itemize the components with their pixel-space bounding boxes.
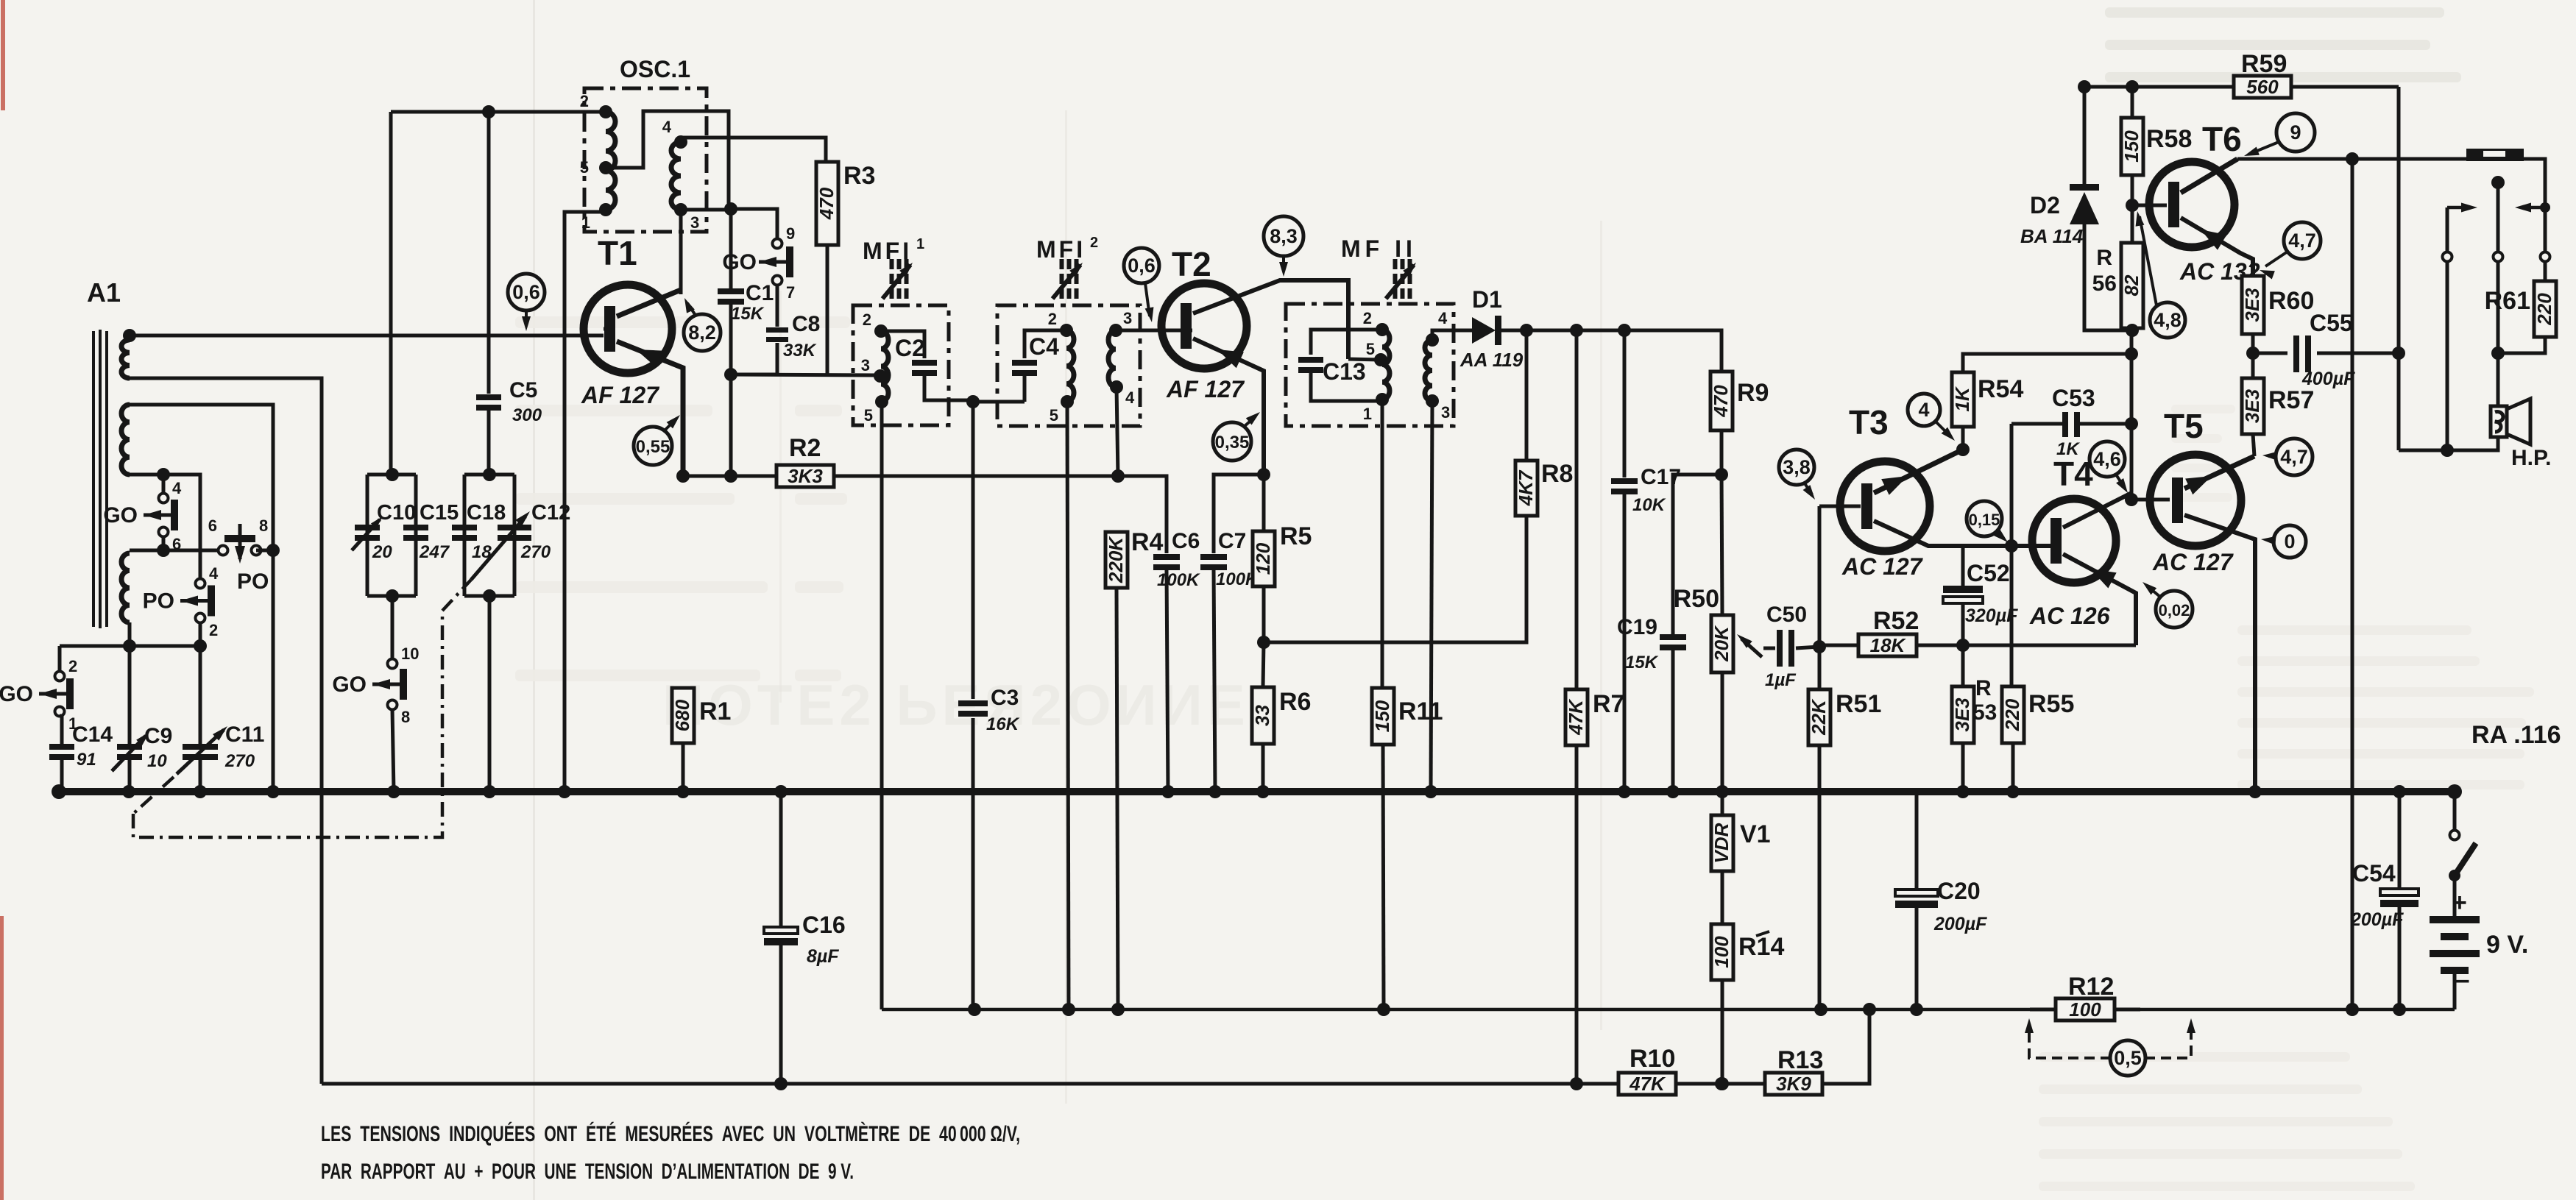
svg-text:R50: R50: [1674, 585, 1719, 613]
svg-text:3: 3: [1123, 309, 1132, 327]
measure circle 9: [2244, 113, 2315, 156]
capacitor C14: [49, 723, 113, 770]
svg-text:H.P.: H.P.: [2511, 446, 2551, 470]
svg-text:56: 56: [2092, 271, 2117, 296]
node R7 AGC: [1570, 1077, 1583, 1090]
svg-text:5: 5: [1366, 340, 1375, 358]
resistor R56: [2092, 243, 2143, 328]
node pin2 line C5: [482, 105, 495, 118]
svg-text:C6: C6: [1172, 529, 1200, 553]
switch PO1: [208, 516, 269, 594]
wire line748: [130, 549, 223, 553]
MFII pin 4: [1426, 309, 1448, 347]
node R61 bottom: [2491, 347, 2505, 360]
T2 type label: [1166, 376, 1245, 402]
svg-text:AA 119: AA 119: [1459, 349, 1524, 371]
wire C7 riser: [1214, 475, 1264, 553]
bus junction dots: [122, 785, 2406, 798]
svg-text:3E3: 3E3: [1951, 697, 1973, 732]
svg-text:VDR: VDR: [1710, 823, 1733, 863]
svg-text:9 V.: 9 V.: [2486, 931, 2528, 959]
svg-text:4: 4: [1438, 309, 1448, 327]
rail junction dots: [1863, 1003, 2406, 1016]
svg-text:10: 10: [401, 645, 419, 663]
wire R6 leads: [1263, 642, 1264, 792]
wire R5 leads: [1262, 475, 1266, 642]
wire MFI1 pin2 to C2: [881, 331, 924, 358]
wire R55 to bus: [2011, 743, 2015, 792]
node R14 AGC: [1716, 1077, 1729, 1090]
measure circle 3,8: [1779, 450, 1815, 500]
svg-text:270: 270: [520, 542, 551, 562]
svg-text:3E3: 3E3: [2241, 288, 2263, 322]
svg-text:3: 3: [1441, 403, 1450, 422]
resistor R61: [2485, 281, 2556, 337]
node R11 rail: [1377, 1003, 1390, 1016]
node R54 T5base: [2125, 347, 2138, 361]
T2 emitter: [1193, 338, 1264, 475]
wire R11 to rail: [1383, 745, 1384, 1009]
transformer MFII label: [1341, 235, 1417, 262]
measure circle 0,6 T1: [508, 274, 545, 331]
wire R3 to line509: [826, 245, 829, 375]
svg-text:53: 53: [1972, 700, 1997, 725]
resistor R6: [1251, 687, 1312, 744]
wire C9 stub: [128, 646, 132, 792]
wire C53 left: [2011, 422, 2065, 426]
wire R53 leads: [1961, 645, 1965, 792]
svg-text:ИOTE2 ЬEЯ2OИИE: ИOTE2 ЬEЯ2OИИE: [662, 672, 1250, 737]
svg-text:C19: C19: [1617, 615, 1657, 639]
wire GO4 to C14: [60, 716, 62, 745]
svg-text:150: 150: [1371, 700, 1393, 732]
svg-text:R51: R51: [1836, 690, 1881, 718]
svg-text:8: 8: [259, 516, 268, 535]
wire MFII pin2 to C13: [1311, 330, 1382, 355]
MFI2 pin 5: [1050, 395, 1074, 425]
trimmer bank box C18 C12: [464, 475, 514, 596]
MFII pin 1: [1363, 393, 1389, 423]
wire R14 bottom: [1721, 980, 1724, 1084]
capacitor C7: [1200, 529, 1259, 589]
svg-text:C20: C20: [1937, 878, 1981, 904]
svg-text:15K: 15K: [731, 304, 765, 324]
svg-text:C9: C9: [144, 724, 172, 748]
schematic ref RA.116: [2471, 721, 2561, 749]
resistor R60: [2241, 276, 2315, 334]
diode D2: [2020, 87, 2132, 330]
jack contact mid: [2494, 252, 2503, 262]
svg-text:9: 9: [2290, 121, 2301, 143]
svg-text:C1: C1: [746, 281, 774, 305]
T6 label: [2202, 120, 2242, 158]
svg-text:100K: 100K: [1157, 570, 1200, 590]
T1 base wire: [604, 327, 615, 331]
wire mid contact down: [2497, 262, 2500, 353]
node coil L1 top: [123, 329, 136, 342]
svg-text:10K: 10K: [1632, 495, 1666, 515]
wire C19 to bus: [1671, 650, 1675, 792]
svg-text:C10: C10: [377, 501, 416, 525]
wire C50 right: [1796, 647, 1819, 648]
svg-text:T4: T4: [2053, 455, 2093, 493]
svg-text:3K3: 3K3: [788, 465, 823, 487]
node C3 rail: [968, 1003, 981, 1016]
svg-text:RA .116: RA .116: [2471, 721, 2561, 749]
node C10 box bottom: [386, 589, 399, 603]
OSC.1 coil A: [606, 112, 615, 210]
svg-text:18K: 18K: [1870, 634, 1907, 656]
svg-text:0,55: 0,55: [636, 437, 670, 457]
wire R12 leads: [2030, 1008, 2140, 1012]
jack switch arrows: [2447, 202, 2550, 252]
svg-text:8: 8: [401, 708, 410, 726]
resistor R59: [2234, 50, 2291, 98]
node line878 C11: [194, 639, 207, 653]
node T4 base: [2005, 539, 2018, 553]
varistor V1: [1710, 815, 1771, 871]
T1 emitter: [617, 341, 683, 476]
node GO1 bottom: [157, 544, 170, 557]
svg-text:R13: R13: [1777, 1046, 1823, 1074]
resistor R3: [815, 162, 876, 245]
node R51 rail: [1814, 1003, 1827, 1016]
svg-text:C16: C16: [802, 912, 846, 938]
svg-text:R4: R4: [1131, 528, 1164, 556]
svg-text:3: 3: [690, 213, 699, 232]
resistor R4: [1105, 528, 1164, 588]
svg-text:PO: PO: [143, 589, 174, 614]
svg-text:2: 2: [863, 310, 871, 329]
switch GO3: [332, 645, 419, 726]
trimmer bank box C10 C15: [367, 475, 416, 596]
svg-text:4: 4: [1125, 388, 1135, 407]
svg-text:C2: C2: [895, 335, 925, 361]
measure circle 4,6: [2090, 441, 2128, 493]
svg-text:C53: C53: [2052, 385, 2095, 411]
wire R52 line: [1819, 644, 2136, 647]
OSC.1 pin 2: [580, 92, 612, 118]
svg-text:C17: C17: [1641, 465, 1681, 489]
measure circle 8,2: [684, 298, 721, 351]
wire line509 to MFI1 pin3: [731, 374, 880, 375]
svg-text:C7: C7: [1218, 529, 1246, 553]
svg-text:4: 4: [172, 479, 182, 497]
node R52 C52: [1956, 639, 1970, 652]
wire GO3 to bus: [392, 709, 394, 792]
svg-text:R55: R55: [2028, 690, 2074, 718]
svg-text:MF II: MF II: [1341, 235, 1417, 262]
svg-text:0,6: 0,6: [1128, 255, 1156, 277]
node C55 right: [2392, 347, 2405, 360]
wire R57 leads: [2253, 353, 2254, 456]
wire MFI2 pin5 to rail: [1067, 402, 1069, 1009]
MFI1 coil: [881, 331, 888, 402]
svg-text:PO: PO: [237, 569, 269, 594]
svg-text:0,15: 0,15: [1969, 511, 2000, 529]
capacitor C52 electrolytic: [1943, 560, 2018, 626]
resistor R14: [1710, 924, 1785, 980]
capacitor C16: [764, 912, 846, 967]
transistor T6: [2149, 162, 2234, 247]
node D1 C17: [1618, 324, 1631, 337]
svg-text:R59: R59: [2241, 50, 2287, 78]
resistor R13: [1765, 1046, 1823, 1095]
wire MFI2 pin4 to R4: [1117, 387, 1118, 476]
wire A1 L1 top to T1 base: [130, 335, 604, 340]
OSC.1 pin 4: [662, 118, 687, 149]
wire C5 riser: [487, 112, 491, 394]
T3 label: [1849, 403, 1889, 441]
node T6 base: [2126, 199, 2139, 212]
node C10 box top: [386, 468, 399, 481]
wire osc pin2 line: [391, 110, 606, 114]
svg-text:6: 6: [208, 516, 217, 535]
wire C19 branch: [1673, 475, 1722, 634]
svg-text:150: 150: [2120, 130, 2142, 163]
svg-text:247: 247: [419, 542, 450, 562]
T6 base wire: [2132, 204, 2167, 207]
svg-text:R10: R10: [1630, 1045, 1675, 1073]
wire R8 top: [1525, 330, 1529, 461]
antenna coil L2: [121, 405, 130, 475]
svg-text:AC 127: AC 127: [2152, 549, 2234, 575]
transformer OSC.1 box: [584, 88, 707, 232]
T5 base wire: [2131, 498, 2170, 502]
svg-text:MFI: MFI: [1036, 236, 1086, 263]
wire R9 bottom: [1720, 430, 1724, 475]
wire C5 to C18 box: [487, 411, 491, 475]
svg-text:1: 1: [581, 213, 590, 232]
svg-text:220K: 220K: [1105, 536, 1127, 583]
transistor T4: [2032, 499, 2116, 583]
jack contact left: [2443, 252, 2452, 262]
measure circle 8,3: [1264, 216, 1303, 277]
resistor R52: [1858, 607, 1919, 656]
wire GO1 to line748: [162, 536, 166, 550]
MFII pin 3: [1426, 394, 1450, 422]
svg-text:R52: R52: [1873, 607, 1919, 635]
resistor R54: [1951, 372, 2024, 427]
wire C50 left: [1763, 647, 1775, 650]
node R4 top: [1111, 469, 1125, 483]
svg-text:2: 2: [209, 621, 218, 639]
T4 collector: [2063, 493, 2131, 528]
MFII coil A: [1382, 330, 1390, 400]
svg-text:2: 2: [1090, 235, 1098, 251]
svg-text:R9: R9: [1737, 379, 1769, 407]
node C18 box top: [483, 468, 496, 481]
diode D1: [1459, 286, 1524, 371]
svg-text:470: 470: [815, 187, 838, 220]
jack contact right: [2541, 252, 2550, 262]
svg-text:LES TENSIONS INDIQUÉES ONT: LES TENSIONS INDIQUÉES ONT ÉTÉ MESURÉES …: [321, 1121, 1020, 1146]
transformer MFI1 box: [853, 305, 949, 425]
capacitor C2: [895, 335, 937, 376]
OSC.1 coil B: [671, 142, 681, 210]
svg-text:120: 120: [1252, 542, 1274, 575]
svg-text:R11: R11: [1398, 697, 1443, 725]
wire R50 bottom: [1721, 672, 1724, 792]
svg-text:R58: R58: [2146, 125, 2192, 153]
transformer MFI2 box: [997, 305, 1140, 426]
wire T5base riser: [2130, 330, 2134, 500]
wire C3 to rail: [972, 718, 975, 1009]
T5 label: [2164, 407, 2204, 445]
svg-text:AF 127: AF 127: [1166, 376, 1245, 402]
T2 collector: [1193, 280, 1348, 359]
transistor T2: [1161, 283, 1247, 369]
node jack return: [2346, 152, 2359, 166]
svg-text:D1: D1: [1472, 286, 1502, 313]
MFII pin 5: [1366, 340, 1387, 366]
resistor R57: [2241, 378, 2315, 434]
wire R59 corner down: [2397, 87, 2401, 353]
capacitor C17: [1611, 465, 1681, 515]
measure circle 0,55: [634, 415, 680, 465]
svg-text:5: 5: [864, 406, 873, 425]
wire C14 to bus: [60, 760, 64, 792]
wire battery minus: [2453, 974, 2457, 1009]
svg-text:C3: C3: [991, 686, 1019, 710]
node C53 T5base: [2125, 417, 2138, 430]
svg-text:100: 100: [2069, 998, 2101, 1020]
transistor T1: [584, 285, 672, 373]
wire C2 bottom: [924, 373, 973, 400]
node T3 base bottom: [1813, 640, 1826, 653]
wire V1 R14: [1721, 871, 1724, 924]
power switch: [2449, 792, 2476, 917]
svg-text:2: 2: [1363, 309, 1372, 327]
measure circle 0,5: [2025, 1018, 2195, 1076]
wire OSC pin3 to C1 node: [681, 208, 729, 212]
node T2 emitter R5: [1257, 468, 1270, 481]
svg-text:C52: C52: [1967, 560, 2010, 586]
wire C55 left: [2253, 352, 2287, 355]
svg-text:C13: C13: [1323, 358, 1366, 385]
note line 2: [321, 1160, 854, 1184]
wire R54 bottom: [1961, 427, 1965, 450]
switch GO4: [0, 657, 77, 733]
battery 9V: [2430, 889, 2528, 995]
resistor R5: [1252, 522, 1312, 586]
svg-text:V1: V1: [1740, 820, 1771, 848]
measure circle 0,6 T2: [1124, 248, 1159, 322]
svg-text:5: 5: [580, 158, 589, 177]
svg-text:T3: T3: [1849, 403, 1889, 441]
T5 collector: [2184, 515, 2255, 792]
svg-text:R8: R8: [1541, 460, 1573, 488]
wire jack line: [2237, 159, 2545, 252]
svg-text:3: 3: [861, 356, 870, 374]
mech link dash-dot: [133, 580, 471, 837]
svg-text:20: 20: [372, 542, 392, 562]
resistor R8: [1515, 460, 1574, 516]
transformer OSC.1 label: [620, 56, 690, 82]
svg-text:470: 470: [1710, 385, 1732, 418]
svg-text:16K: 16K: [986, 714, 1020, 734]
resistor R1: [671, 688, 732, 743]
capacitor C3: [958, 686, 1020, 734]
svg-text:R14: R14: [1738, 933, 1784, 961]
wire OSC pin1 to bus: [565, 212, 606, 792]
wire MFI junction to C4: [973, 400, 1025, 404]
T3 base wire: [1819, 506, 1861, 645]
node PO1-8: [266, 544, 280, 557]
bus end dots: [52, 784, 2462, 799]
svg-text:8µF: 8µF: [807, 946, 839, 967]
capacitor C13: [1298, 357, 1366, 385]
wire D1 line: [1501, 330, 1722, 372]
speaker HP: [2491, 399, 2551, 470]
antenna coil L1: [121, 340, 130, 378]
svg-text:D2: D2: [2030, 192, 2060, 219]
svg-text:400µF: 400µF: [2301, 369, 2355, 389]
wire T1 collector riser: [679, 210, 683, 294]
wire C16 leads: [779, 792, 783, 1084]
antenna A1 label: [87, 277, 121, 308]
node jack return rail: [2346, 1003, 2359, 1016]
wire C4 bottom: [1023, 373, 1027, 402]
wire GO3 riser: [391, 596, 394, 664]
measure circle 4,7 up: [2260, 222, 2321, 279]
wire AGC line: [322, 1009, 1869, 1084]
MFI2 pin 4: [1110, 380, 1135, 407]
T6 emitter: [2181, 218, 2253, 276]
svg-text:200µF: 200µF: [1933, 914, 1987, 934]
node C16 AGC: [774, 1077, 788, 1090]
node T5 base: [2125, 493, 2138, 506]
capacitor C8: [766, 312, 820, 361]
wire GO4 riser: [58, 646, 62, 676]
capacitor C6: [1153, 529, 1200, 590]
switch GO1: [103, 479, 182, 553]
transformer MFI2 label: [1036, 235, 1098, 263]
svg-text:R1: R1: [699, 697, 731, 725]
svg-text:−: −: [2455, 968, 2470, 995]
wire C7 to bus: [1214, 570, 1215, 792]
svg-text:3,8: 3,8: [1783, 456, 1811, 478]
svg-text:T2: T2: [1172, 245, 1211, 283]
T4 emitter: [2063, 554, 2136, 645]
svg-text:GO: GO: [103, 503, 138, 528]
T6 type label: [2179, 258, 2260, 285]
svg-text:C11: C11: [225, 723, 264, 747]
wire R51 leads: [1818, 647, 1822, 1009]
wire C6 to bus: [1167, 570, 1168, 792]
MFI2 tuning symbol: [1052, 259, 1083, 299]
MFI2 coil A: [1066, 330, 1074, 402]
MFI1 pin 2: [863, 310, 888, 338]
capacitor C4: [1012, 333, 1059, 376]
MFI2 pin 3: [1109, 309, 1132, 337]
svg-text:C5: C5: [509, 378, 537, 402]
svg-text:T6: T6: [2202, 120, 2242, 158]
svg-text:1µF: 1µF: [1765, 670, 1797, 690]
svg-text:C55: C55: [2310, 310, 2353, 336]
MFI1 pin 5: [864, 395, 888, 425]
svg-text:C54: C54: [2352, 860, 2396, 887]
svg-text:1K: 1K: [2056, 439, 2080, 459]
wire line878: [60, 645, 200, 648]
wire GO2 to C8: [776, 285, 779, 327]
T4 type label: [2029, 603, 2110, 629]
svg-text:200µF: 200µF: [2350, 909, 2404, 930]
wire R8 bottom: [1264, 516, 1526, 642]
MFI1 pin 3: [861, 356, 887, 383]
svg-text:300: 300: [512, 405, 542, 425]
svg-text:T5: T5: [2164, 407, 2204, 445]
